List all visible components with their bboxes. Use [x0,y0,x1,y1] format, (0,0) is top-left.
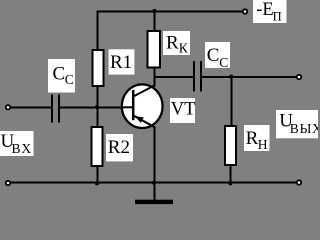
svg-text:С: С [65,72,74,87]
svg-text:К: К [179,41,189,56]
svg-text:ВХ: ВХ [12,141,33,156]
wire Rн to ground rail [229,165,231,184]
node output junction dot [229,75,233,79]
node Rн ground junction dot [228,181,232,185]
wire Rн branch from output rail [230,76,232,126]
wire bottom ground rail [11,182,297,184]
svg-text:R: R [246,128,259,149]
wire collector node to C2 [154,76,195,78]
svg-text:C: C [207,45,220,66]
node base junction dot [95,105,99,109]
terminal bottom right [297,180,301,184]
svg-text:R2: R2 [108,137,130,158]
label Uвых [276,110,320,138]
wire C1 to transistor base [59,106,122,108]
resistor Rн [225,126,236,165]
resistor R1 [93,50,104,86]
label R1 [109,49,135,74]
label VT [170,98,195,123]
wire R1 branch from top rail [97,11,99,51]
svg-text:Н: Н [258,137,268,152]
wire top supply rail [97,11,243,13]
wire R1 to base node [97,86,99,127]
label Uвх [0,131,34,156]
wire Rк to collector node [154,68,156,87]
transistor VT [121,84,163,128]
wire input terminal to C1 [11,106,52,108]
capacitor C1 (Cс input) [52,95,59,123]
ground symbol [135,183,173,204]
svg-text:ВЫХ: ВЫХ [290,121,318,136]
wire Rк branch from top rail [154,11,156,32]
label R2 [106,134,133,161]
label Cс input [48,59,75,93]
node junction dot on top rail [152,9,156,13]
label -Eп [253,0,287,23]
svg-text:П: П [273,9,282,23]
svg-text:VT: VT [171,100,196,120]
terminal input [6,105,10,109]
resistor R2 [92,127,103,166]
wire C2 to output terminal [201,76,297,78]
label Rн [244,125,270,152]
wire emitter to ground rail [154,127,156,184]
terminal output [297,75,301,79]
label Rк [163,31,190,56]
svg-text:С: С [219,55,228,70]
node emitter ground junction dot [152,181,156,185]
svg-text:C: C [53,64,66,85]
resistor Rк [147,31,160,68]
node R2 ground junction dot [95,181,99,185]
label Cс output [205,42,230,70]
svg-text:R: R [166,32,179,53]
capacitor C2 (Cс output) [194,61,201,92]
wire R2 to ground rail [97,166,99,184]
svg-text:-E: -E [256,0,273,20]
terminal -Eп [243,9,247,13]
svg-text:R1: R1 [110,52,132,73]
terminal bottom left [6,181,10,185]
